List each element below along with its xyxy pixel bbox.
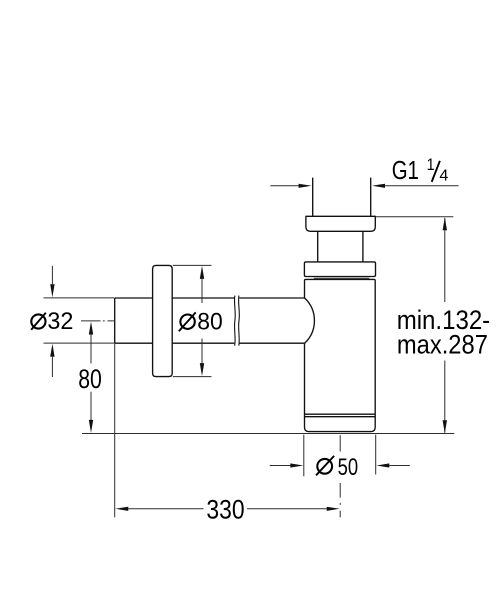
svg-text:80: 80 [78, 364, 102, 394]
svg-text:80: 80 [197, 308, 223, 335]
svg-text:max.287: max.287 [397, 330, 488, 360]
svg-text:1: 1 [427, 156, 435, 174]
svg-text:32: 32 [47, 308, 73, 335]
svg-text:G1: G1 [392, 155, 419, 185]
svg-text:330: 330 [206, 495, 244, 525]
svg-text:4: 4 [439, 167, 448, 184]
svg-text:50: 50 [338, 454, 359, 481]
